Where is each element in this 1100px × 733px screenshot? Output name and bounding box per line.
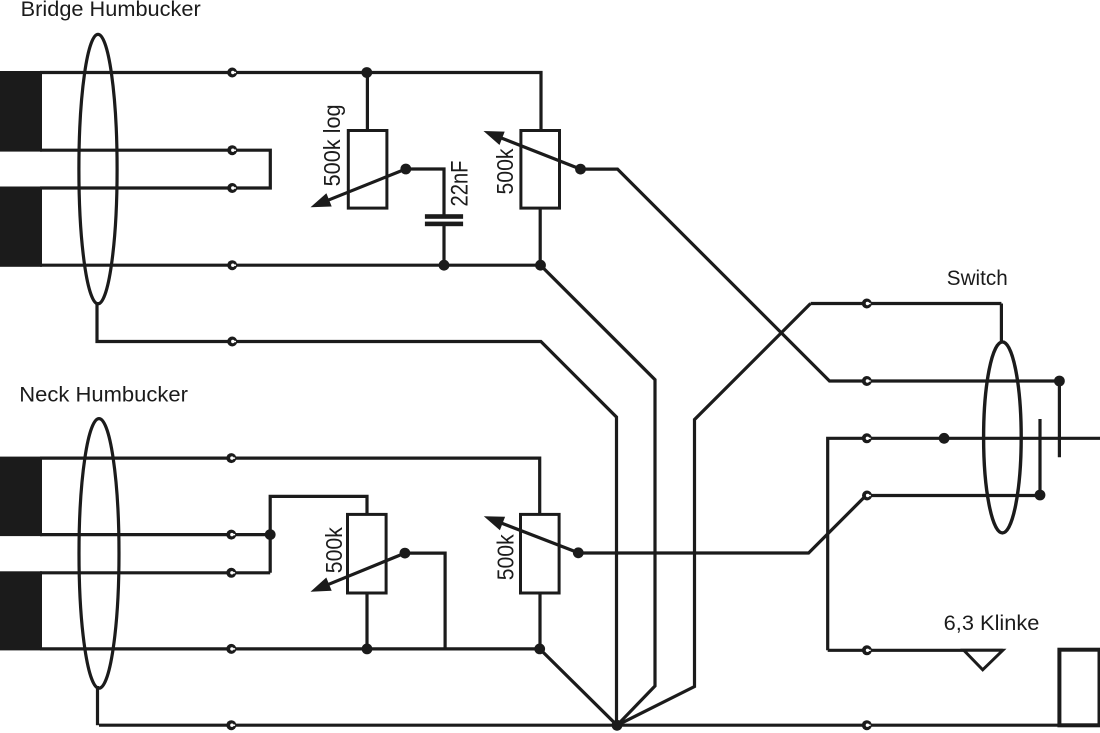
svg-text:Bridge Humbucker: Bridge Humbucker — [21, 0, 201, 21]
svg-text:Neck Humbucker: Neck Humbucker — [19, 383, 188, 407]
svg-text:22nF: 22nF — [447, 161, 474, 207]
svg-text:500k: 500k — [493, 534, 519, 580]
svg-text:500k log: 500k log — [319, 104, 345, 186]
svg-text:500k: 500k — [492, 148, 518, 194]
svg-text:Switch: Switch — [947, 266, 1008, 290]
svg-text:500k: 500k — [321, 527, 347, 573]
svg-text:6,3 Klinke: 6,3 Klinke — [944, 611, 1040, 635]
